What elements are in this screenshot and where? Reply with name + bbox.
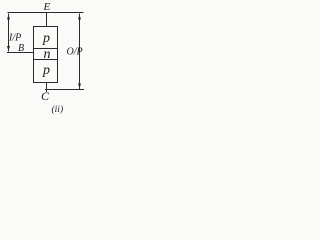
svg-text:n: n (44, 47, 51, 62)
svg-text:O/P: O/P (67, 47, 83, 58)
svg-text:E: E (43, 1, 51, 13)
svg-text:B: B (18, 43, 24, 54)
svg-text:(ii): (ii) (52, 104, 64, 115)
svg-text:p: p (42, 63, 50, 78)
svg-text:p: p (42, 31, 50, 46)
svg-text:C: C (41, 89, 50, 103)
svg-text:I/P: I/P (8, 33, 21, 44)
